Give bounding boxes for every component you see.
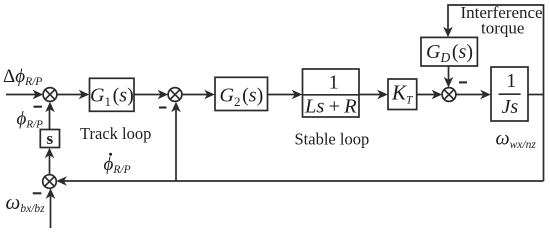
svg-text:1: 1 bbox=[329, 72, 339, 94]
wire 1/(Ls+R) to block KT bbox=[359, 94, 382, 96]
svg-text:ϕR/P: ϕR/P bbox=[104, 154, 131, 176]
arrowhead into S4 from rate bus bbox=[56, 176, 67, 186]
arrowhead into S1 from below bbox=[45, 102, 55, 113]
arrowhead into S1 bbox=[33, 90, 44, 100]
svg-text:G1 (s): G1 (s) bbox=[90, 85, 134, 110]
wire block s up to summer S1 bbox=[49, 108, 51, 130]
svg-text:Ls + R: Ls + R bbox=[304, 96, 357, 118]
wire G1 to summer S2 bbox=[134, 94, 162, 96]
svg-text:G2 (s): G2 (s) bbox=[220, 85, 264, 110]
block s box bbox=[40, 130, 59, 148]
svg-text:GD (s): GD (s) bbox=[426, 41, 473, 65]
arrowhead into KT bbox=[377, 90, 388, 100]
block KT box bbox=[388, 79, 417, 110]
dot of phi-dot bbox=[109, 153, 112, 156]
wire input Dphi to summer S1 bbox=[6, 94, 36, 96]
block G1 box bbox=[90, 78, 135, 111]
arrowhead into 1/Js bbox=[480, 90, 491, 100]
svg-text:Track loop: Track loop bbox=[80, 124, 151, 143]
fraction bar in 1/(Ls+R) bbox=[303, 94, 360, 96]
arrowhead into S4 from below bbox=[46, 188, 56, 199]
svg-text:ϕR/P: ϕR/P bbox=[17, 109, 44, 131]
svg-text:Interferencetorque: Interferencetorque bbox=[461, 3, 543, 38]
minus sign at S4 bbox=[33, 192, 42, 194]
fraction bar in 1/Js bbox=[499, 93, 521, 95]
svg-text:s: s bbox=[47, 129, 54, 148]
wire 1/Js output to right bus bbox=[528, 94, 544, 96]
svg-text:Js: Js bbox=[502, 96, 519, 118]
wire S1 to block G1 bbox=[57, 94, 83, 96]
summer S1 bbox=[43, 88, 57, 102]
wire GD output to summer S3 bbox=[448, 66, 450, 81]
block 1/Js box bbox=[491, 67, 528, 121]
svg-text:Stable loop: Stable loop bbox=[295, 130, 370, 149]
arrowhead into G1 bbox=[79, 90, 90, 100]
wire right bus up and top run to GD branch bbox=[448, 5, 544, 181]
svg-text:1: 1 bbox=[506, 70, 516, 92]
summer S3 bbox=[442, 88, 456, 102]
arrowhead into G2 bbox=[204, 90, 215, 100]
block G2 box bbox=[215, 77, 268, 110]
block GD box bbox=[421, 37, 477, 66]
arrowhead into 1/(Ls+R) bbox=[292, 90, 303, 100]
wire G2 to block 1/(Ls+R) bbox=[268, 94, 297, 96]
minus sign at S3 bbox=[459, 81, 467, 83]
wire rate feedback bus (bottom, y=181) bbox=[63, 180, 544, 182]
wire omega-b input up to summer S4 bbox=[50, 195, 52, 228]
wire summer S4 up to block s bbox=[49, 154, 51, 175]
arrowhead into S2 from below bbox=[171, 102, 181, 113]
minus sign at S2 bbox=[159, 106, 167, 108]
svg-text:KT: KT bbox=[391, 81, 414, 107]
minus sign at S1 bbox=[34, 106, 43, 108]
wire S2 to block G2 bbox=[182, 94, 209, 96]
arrowhead into S3 from KT bbox=[432, 90, 443, 100]
arrowhead into GD from top bbox=[443, 27, 453, 38]
block 1/(Ls+R) box bbox=[303, 69, 360, 117]
svg-text:ωwx/nz: ωwx/nz bbox=[496, 128, 537, 151]
wire S3 to block 1/Js bbox=[456, 94, 485, 96]
arrowhead into S2 bbox=[158, 90, 169, 100]
wire KT to summer S3 bbox=[417, 94, 436, 96]
summer S4 bbox=[43, 175, 57, 189]
arrowhead into S3 from GD bbox=[444, 77, 454, 88]
summer S2 bbox=[168, 88, 182, 102]
wire branch up from rate bus to summer S2 bbox=[175, 108, 177, 181]
svg-text:ΔϕR/P: ΔϕR/P bbox=[3, 66, 42, 88]
arrowhead into block s bbox=[45, 148, 55, 159]
